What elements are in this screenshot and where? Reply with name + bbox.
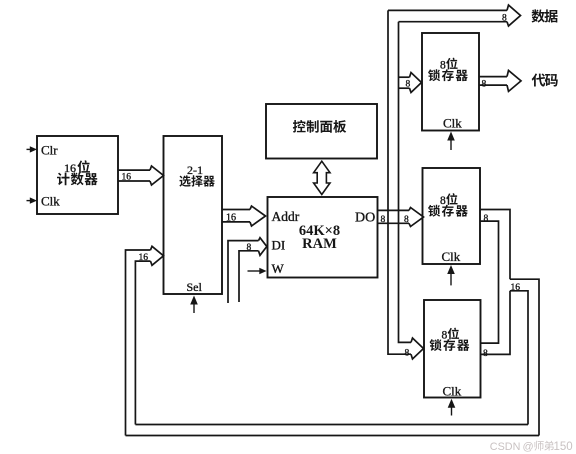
svg-text:8: 8: [440, 195, 446, 207]
wire: bottom latch Clk arrow: [448, 399, 456, 416]
bus: branch 8-bit into bottom latch (head): [405, 338, 424, 359]
svg-text:16: 16: [122, 173, 132, 183]
wire: Clk input arrow: [27, 197, 38, 203]
bus: middle latch output 8-bit going down right side: [480, 210, 510, 355]
wire: vertical DO bus inner line: [399, 22, 412, 343]
svg-text:8: 8: [405, 349, 410, 359]
svg-text:DI: DI: [272, 237, 286, 252]
block: middle 8-bit latch (8位 锁存器): [423, 168, 481, 264]
wire: Sel control arrow: [190, 296, 198, 314]
net label: 代码: [532, 74, 546, 87]
svg-text:Clk: Clk: [442, 249, 461, 264]
block: control panel (控制面板): [266, 104, 377, 159]
svg-text:CSDN: CSDN: [490, 441, 521, 453]
svg-text:8: 8: [442, 329, 448, 341]
wire: bottom feedback loop horizontal lines: [126, 425, 540, 436]
bus: RAM DO output 8-bit to middle latch: [378, 208, 424, 227]
bus: feedback 8-bit into RAM DI: [228, 238, 267, 303]
bus: selector output 16-bit to RAM Addr: [222, 206, 266, 226]
svg-text:DO: DO: [355, 210, 375, 225]
svg-text:W: W: [272, 261, 285, 276]
net label: 数据: [532, 9, 545, 22]
svg-text:8: 8: [502, 14, 507, 24]
svg-text:8: 8: [482, 80, 487, 90]
svg-text:Clk: Clk: [443, 384, 462, 399]
svg-text:Sel: Sel: [187, 280, 203, 294]
svg-text:2-1: 2-1: [187, 163, 203, 177]
wire: W write-enable input arrow: [248, 268, 267, 274]
svg-text:8: 8: [484, 214, 489, 224]
svg-text:8: 8: [440, 59, 446, 71]
bus: counter output 16-bit to selector: [118, 166, 164, 185]
svg-text:Clk: Clk: [41, 194, 60, 209]
svg-text:8: 8: [381, 215, 386, 225]
svg-text:16: 16: [139, 253, 149, 263]
wire: Clr input arrow: [27, 146, 38, 152]
block: top 8-bit latch (8位 锁存器): [422, 33, 479, 131]
wire: bidirectional arrow control panel to RAM: [314, 161, 330, 194]
svg-text:150: 150: [554, 441, 573, 453]
block: 64Kx8 RAM: [268, 197, 378, 278]
bus: data output 8-bit (数据): [388, 5, 521, 26]
svg-text:8: 8: [404, 215, 409, 225]
watermark: CSDN @师弟150: [490, 441, 573, 453]
wire: top latch Clk arrow: [447, 132, 455, 151]
bus: top latch output 8-bit (代码): [479, 70, 521, 91]
svg-text:16: 16: [226, 213, 236, 224]
svg-text:8: 8: [406, 80, 411, 90]
svg-text:8: 8: [483, 349, 488, 359]
bus: feedback 16-bit into selector: [126, 246, 164, 435]
svg-text:RAM: RAM: [302, 236, 337, 252]
svg-text:16: 16: [511, 283, 521, 293]
bus: merged 16-bit feedback branch going down: [510, 279, 539, 435]
block: 2-1 selector (2-1 选择器): [164, 136, 223, 294]
svg-text:@: @: [523, 441, 534, 453]
wire: vertical DO bus outer line (to top data out, down to bottom latch): [388, 10, 411, 354]
svg-text:Clr: Clr: [41, 143, 58, 158]
block: bottom 8-bit latch (8位 锁存器): [424, 300, 481, 399]
block: 16-bit counter (16位 计数器): [37, 136, 118, 214]
svg-text:Clk: Clk: [443, 116, 462, 131]
svg-text:8: 8: [247, 243, 252, 253]
bus: branch 8-bit into top latch: [399, 73, 422, 93]
svg-text:Addr: Addr: [272, 209, 300, 224]
wire: middle latch Clk arrow: [447, 265, 455, 285]
